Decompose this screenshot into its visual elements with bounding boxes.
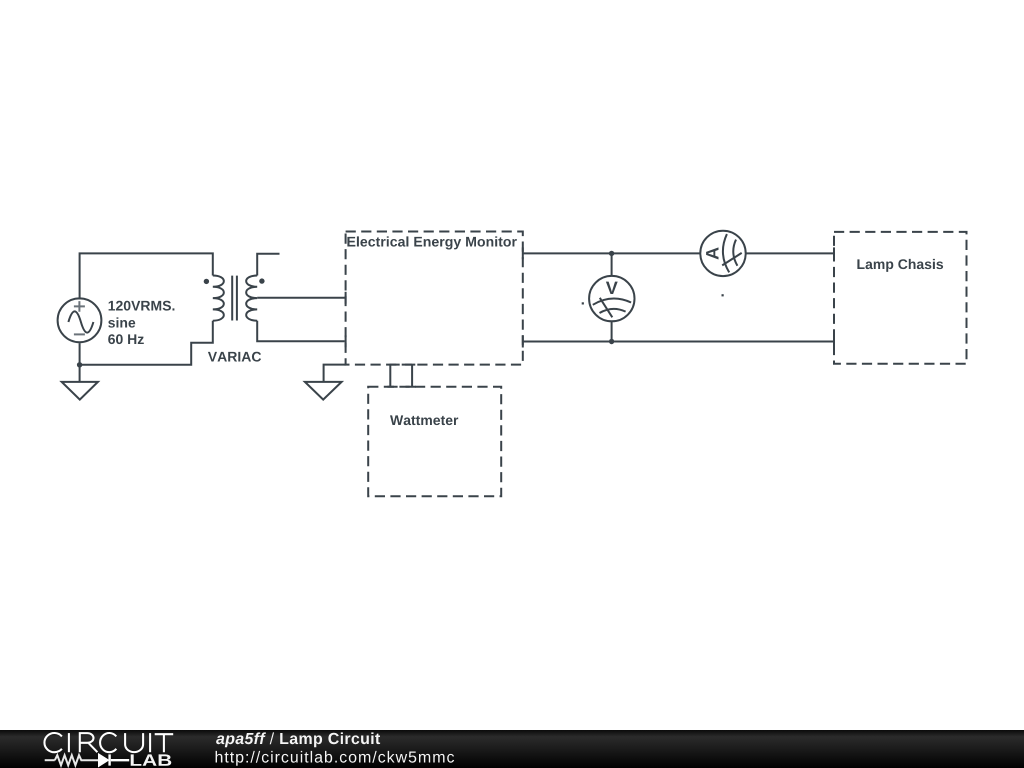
ammeter M2 bbox=[700, 231, 745, 276]
footer bar bbox=[0, 730, 1024, 768]
logo CIRCUIT lettering bbox=[44, 733, 173, 752]
labels bbox=[108, 236, 943, 425]
label Wattmeter bbox=[390, 415, 458, 425]
Wattmeter box bbox=[368, 387, 501, 497]
label A in ammeter bbox=[706, 247, 718, 259]
label dot voltmeter bbox=[582, 302, 584, 304]
polarity dot secondary bbox=[259, 278, 264, 283]
node junction voltmeter top bbox=[609, 251, 614, 256]
terminal cap monitor right bottom bbox=[522, 336, 524, 348]
terminal caps lamp box bbox=[833, 247, 835, 349]
voltmeter M1 bbox=[589, 276, 634, 321]
Lamp Chasis box bbox=[834, 232, 967, 364]
label VARIAC bbox=[208, 352, 261, 362]
label 120VRMS. sine 60Hz bbox=[109, 301, 175, 311]
wire top from source to transformer bbox=[80, 253, 213, 299]
wire bottom from source to transformer bbox=[80, 321, 213, 365]
Electrical Energy Monitor box bbox=[346, 232, 523, 365]
footer title bbox=[216, 732, 266, 747]
secondary bottom wire to monitor bbox=[257, 321, 345, 342]
logo LAB bbox=[131, 754, 172, 765]
secondary tap wire to monitor bbox=[257, 297, 345, 299]
bottom rail wire monitor to lamp bbox=[523, 341, 834, 343]
node junction at source bottom bbox=[77, 362, 82, 367]
stub cap dashes bbox=[387, 365, 415, 387]
voltmeter branch wire bottom bbox=[611, 321, 613, 341]
ground (left) bbox=[62, 365, 98, 400]
wire ammeter to lamp box bbox=[746, 252, 834, 254]
wattmeter stub wires bbox=[390, 365, 412, 387]
terminal cap monitor right top bbox=[522, 247, 524, 259]
label Lamp Chasis bbox=[857, 259, 943, 272]
voltage source V1 bbox=[58, 298, 102, 342]
ground (monitor) bbox=[305, 382, 342, 400]
top rail wire monitor to ammeter bbox=[523, 252, 701, 254]
label dot ammeter bbox=[722, 294, 724, 296]
node junction voltmeter bottom bbox=[609, 339, 614, 344]
terminal cap bottom bbox=[345, 335, 347, 347]
logo resistor bbox=[55, 755, 99, 765]
polarity dot primary bbox=[204, 279, 209, 284]
label V in voltmeter bbox=[606, 282, 618, 294]
CircuitLab logo bbox=[45, 754, 130, 765]
voltmeter branch wire top bbox=[611, 253, 613, 276]
secondary top stub wire bbox=[257, 254, 279, 276]
logo diode bbox=[99, 755, 108, 766]
transformer secondary coil bbox=[246, 276, 257, 321]
terminal cap tap bbox=[345, 292, 347, 304]
label Electrical Energy Monitor bbox=[347, 236, 516, 249]
logo wire lead bbox=[45, 759, 55, 761]
ground wire from monitor bbox=[324, 365, 346, 382]
footer url bbox=[216, 751, 455, 766]
transformer core bbox=[232, 276, 237, 321]
transformer T1 VARIAC primary coil bbox=[213, 276, 224, 321]
